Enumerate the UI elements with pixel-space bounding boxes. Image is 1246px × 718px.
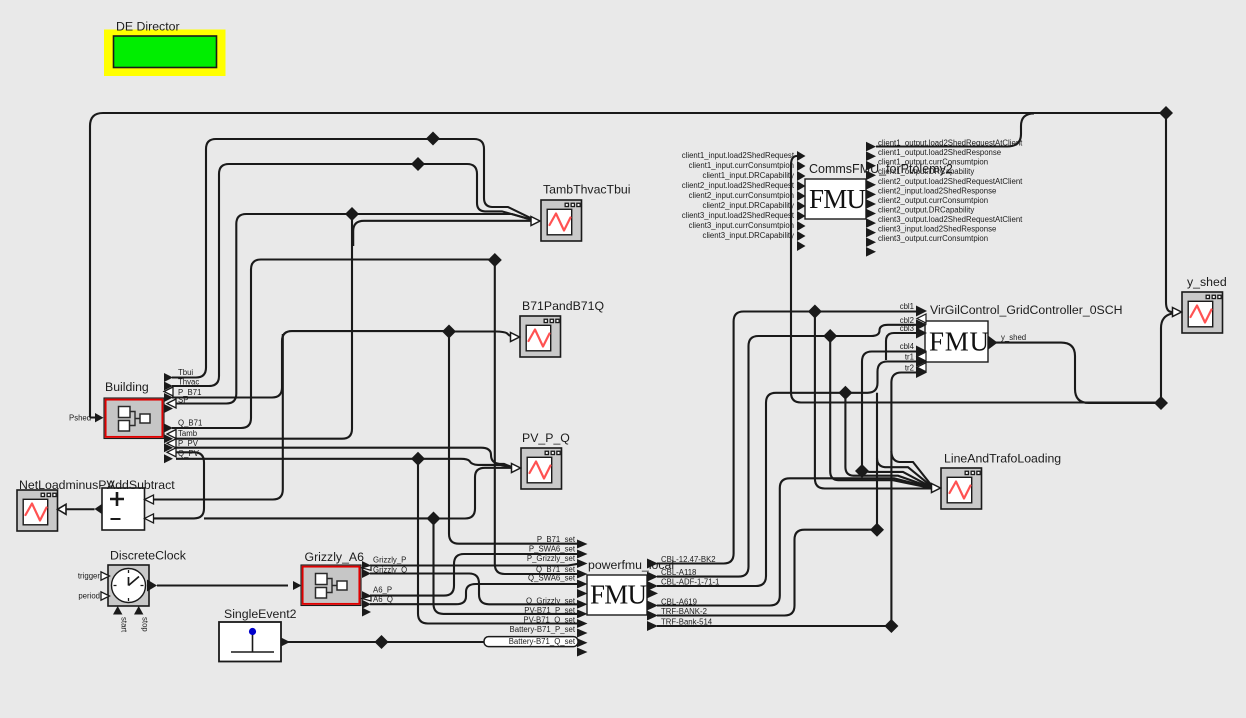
- wire client1_output.load2ShedRequestAtClient riser to top rail: [876, 114, 1034, 147]
- junction cbl2 rail: [823, 329, 837, 343]
- svg-text:PV-B71_Q_set: PV-B71_Q_set: [523, 616, 575, 625]
- svg-text:TRF-BANK-2: TRF-BANK-2: [661, 607, 707, 616]
- wire tr1 rail diamond drop to fan: [845, 393, 933, 488]
- svg-text:client3_output.currConsumtpion: client3_output.currConsumtpion: [878, 234, 988, 243]
- actor DiscreteClock: [78, 549, 187, 633]
- actor Grizzly_A6 (composite): [293, 550, 407, 617]
- wire Q_PV to AddSubtract minus: [154, 452, 204, 518]
- svg-text:P_PV: P_PV: [178, 439, 199, 448]
- svg-text:CBL-A619: CBL-A619: [661, 597, 697, 606]
- junction P_B71 rail: [442, 325, 456, 339]
- svg-text:FMU: FMU: [929, 327, 989, 357]
- wire PV rail drop to powerfmu PV-B71_P_set: [434, 519, 579, 614]
- wire minus rail to diamond 433.5,518.5: [204, 517, 434, 519]
- wire y_shed plotter down to diamond junction: [1161, 314, 1172, 404]
- wire TRF-Bank-514 to diamond then riser to tr2: [657, 373, 917, 627]
- svg-text:client2_input.load2ShedRespons: client2_input.load2ShedResponse: [878, 187, 996, 196]
- actor SingleEvent2: [219, 607, 297, 662]
- svg-text:P_Grizzly_set: P_Grizzly_set: [527, 554, 576, 563]
- ports Building right column: [164, 373, 176, 463]
- svg-text:Thvac: Thvac: [178, 378, 199, 387]
- wire Pshed top loop (Building.Pshed to top rail): [90, 113, 1166, 418]
- svg-text:client3_output.load2ShedReques: client3_output.load2ShedRequestAtClient: [878, 215, 1023, 224]
- wire Q_B71 riser to diamond 494.8,260: [172, 260, 495, 429]
- actor B71PandB71Q (plotter): [511, 299, 605, 357]
- wire tr1 drop tap into LineAndTrafo fan: [877, 458, 933, 488]
- svg-text:client2_output.load2ShedReques: client2_output.load2ShedRequestAtClient: [878, 177, 1023, 186]
- svg-text:Building: Building: [105, 380, 149, 394]
- svg-text:NetLoadminusPV: NetLoadminusPV: [19, 478, 115, 492]
- svg-text:DiscreteClock: DiscreteClock: [110, 549, 187, 563]
- wire Tamb tap into TambThvacTbui: [353, 221, 535, 246]
- junction y_shed rail: [1154, 396, 1168, 410]
- junction Q_PV rail: [411, 452, 425, 466]
- port Building.Pshed: [69, 413, 104, 423]
- wire VirGil y_shed output loop: [995, 343, 1161, 403]
- wire SingleEvent2 to powerfmu Battery-B71_Q_set: [288, 641, 578, 643]
- svg-text:client3_input.load2ShedRespons: client3_input.load2ShedResponse: [878, 225, 996, 234]
- wire AddSubtract out to NetLoadminusPV: [66, 508, 95, 510]
- wire A6_P to powerfmu P_SWA6_set: [370, 554, 578, 596]
- svg-text:A6_P: A6_P: [373, 586, 392, 595]
- svg-text:B71PandB71Q: B71PandB71Q: [522, 299, 604, 313]
- svg-text:client1_output.load2ShedRespon: client1_output.load2ShedResponse: [878, 148, 1001, 157]
- wire CBL-ADF-1-71-1 riser to tr1: [657, 362, 917, 587]
- svg-text:client1_output.load2ShedReques: client1_output.load2ShedRequestAtClient: [878, 139, 1023, 148]
- wire CBL-12.47-BK2 riser to cbl1: [657, 312, 917, 564]
- svg-text:SP: SP: [178, 396, 188, 405]
- actor y_shed (plotter): [1173, 275, 1227, 333]
- wire Tamb branch down from diamond 352,214: [176, 214, 352, 439]
- wire cbl4 drop chain with diamond tap: [862, 352, 917, 472]
- svg-text:Q_B71: Q_B71: [178, 419, 202, 428]
- label pill Battery-B71_Q_set: [484, 637, 578, 647]
- svg-text:client2_output.currConsumtpion: client2_output.currConsumtpion: [878, 196, 988, 205]
- svg-text:Tamb: Tamb: [178, 429, 198, 438]
- junction Tbui rail: [426, 132, 440, 146]
- actor LineAndTrafoLoading (plotter): [932, 452, 1062, 510]
- svg-text:client1_input.load2ShedRequest: client1_input.load2ShedRequest: [682, 151, 795, 160]
- svg-text:Tbui: Tbui: [178, 368, 193, 377]
- svg-text:cbl4: cbl4: [900, 342, 915, 351]
- svg-text:Battery-B71_P_set: Battery-B71_P_set: [510, 625, 576, 634]
- junction rail530: [870, 523, 884, 537]
- port labels powerfmu right: [661, 555, 720, 627]
- svg-text:TambThvacTbui: TambThvacTbui: [543, 183, 630, 197]
- wire DiscreteClock to Grizzly_A6: [157, 584, 288, 586]
- svg-text:Grizzly_A6: Grizzly_A6: [305, 550, 365, 564]
- svg-text:tr1: tr1: [905, 353, 914, 362]
- actor NetLoadminusPV (plotter): [17, 478, 115, 531]
- wire top rail down to y_shed plotter: [1166, 113, 1172, 312]
- svg-text:y_shed: y_shed: [1001, 333, 1026, 342]
- svg-text:tr2: tr2: [905, 364, 914, 373]
- svg-text:Q_Grizzly_set: Q_Grizzly_set: [526, 596, 576, 605]
- junction SP rail: [345, 207, 359, 221]
- svg-text:P_SWA6_set: P_SWA6_set: [529, 545, 576, 554]
- wire tr2 riser tap into LineAndTrafo fan: [891, 451, 933, 487]
- junction cbl4 fan: [855, 464, 869, 478]
- svg-text:client1_input.currConsumtpion: client1_input.currConsumtpion: [689, 161, 794, 170]
- svg-text:client1_input.DRCapability: client1_input.DRCapability: [703, 171, 795, 180]
- junction cbl1 rail: [808, 305, 822, 319]
- svg-text:PV-B71_P_set: PV-B71_P_set: [524, 606, 576, 615]
- wire TRF-BANK-2 riser to y=530 rail: [657, 530, 877, 616]
- junction SingleEvent2 rail: [375, 635, 389, 649]
- svg-text:P_B71_set: P_B71_set: [537, 535, 576, 544]
- ports powerfmu right: [647, 559, 658, 632]
- junction PV rail: [427, 512, 441, 526]
- actor PV_P_Q (plotter): [512, 431, 570, 489]
- port labels CommsFMU right: [878, 139, 1023, 244]
- ports CommsFMU left: [797, 151, 806, 251]
- junction top rail: [1159, 106, 1173, 120]
- svg-text:VirGilControl_GridController_0: VirGilControl_GridController_0SCH: [930, 303, 1123, 317]
- svg-text:cbl1: cbl1: [900, 302, 914, 311]
- wire Q_PV jog into PV_P_Q: [418, 459, 512, 468]
- actor VirGilControl_GridController_0SCH: [925, 303, 1123, 362]
- svg-text:y_shed: y_shed: [1187, 275, 1227, 289]
- svg-text:CBL-A118: CBL-A118: [661, 568, 696, 577]
- port labels CommsFMU left: [682, 151, 795, 240]
- svg-text:DE Director: DE Director: [116, 20, 180, 34]
- svg-text:start: start: [120, 617, 129, 633]
- actor AddSubtract: [95, 478, 176, 530]
- svg-text:client1_output.DRCapability: client1_output.DRCapability: [878, 167, 974, 176]
- svg-text:AddSubtract: AddSubtract: [107, 478, 175, 492]
- wire P_B71 riser to y=331 rail: [172, 331, 449, 397]
- wire CBL-A118 riser to cbl2: [657, 325, 917, 577]
- wire Thvac to TambThvacTbui: [172, 164, 535, 386]
- wire cbl3 stub: [886, 333, 917, 360]
- wire Tbui to TambThvacTbui: [172, 139, 535, 378]
- junction TRF-Bank-514: [884, 619, 898, 633]
- svg-text:client3_input.currConsumtpion: client3_input.currConsumtpion: [689, 221, 794, 230]
- svg-text:A6_Q: A6_Q: [373, 595, 393, 604]
- svg-text:FMU: FMU: [809, 184, 866, 214]
- svg-text:client3_input.DRCapability: client3_input.DRCapability: [703, 231, 795, 240]
- svg-text:client2_input.DRCapability: client2_input.DRCapability: [703, 201, 795, 210]
- wire CBL-A619 riser to LineAndTrafo fan: [657, 478, 933, 605]
- svg-text:Battery-B71_Q_set: Battery-B71_Q_set: [509, 637, 576, 646]
- wire Grizzly_P to powerfmu P_Grizzly_set: [370, 564, 578, 566]
- wire cbl1 rail drop to LineAndTrafo bottom line: [815, 312, 931, 489]
- wire P_B71 branch down to AddSubtract plus: [154, 334, 283, 500]
- svg-text:Q_SWA6_set: Q_SWA6_set: [528, 574, 576, 583]
- wire riser diamond 877,529.7 up to tr1 rail: [876, 393, 878, 530]
- svg-text:LineAndTrafoLoading: LineAndTrafoLoading: [944, 452, 1061, 466]
- svg-text:Q_PV: Q_PV: [178, 449, 200, 458]
- wire P_PV into PV_P_Q: [176, 448, 512, 467]
- svg-text:PV_P_Q: PV_P_Q: [522, 431, 570, 445]
- junction Q_B71 rail: [488, 253, 502, 267]
- actor powerfmu_local: [587, 558, 674, 615]
- svg-text:client3_input.load2ShedRequest: client3_input.load2ShedRequest: [682, 211, 795, 220]
- wire Grizzly_Q to powerfmu Q_Grizzly_set: [370, 574, 578, 605]
- svg-text:CBL-ADF-1-71-1: CBL-ADF-1-71-1: [661, 578, 720, 587]
- svg-text:stop: stop: [141, 617, 150, 632]
- wire cbl2 rail tap down to LineAndTrafo fan: [830, 336, 932, 488]
- svg-text:client1_output.currConsumtpion: client1_output.currConsumtpion: [878, 158, 988, 167]
- svg-text:trigger: trigger: [78, 572, 101, 581]
- wire A6_Q to powerfmu Q_SWA6_set: [370, 584, 578, 604]
- port labels powerfmu left: [510, 535, 576, 634]
- actor Building (composite): [104, 380, 164, 439]
- port labels Building: [178, 368, 202, 458]
- actor CommsFMU_forPtolemy2: [805, 162, 953, 219]
- svg-text:FMU: FMU: [590, 580, 647, 610]
- junction tr1 rail: [838, 386, 852, 400]
- svg-text:period: period: [78, 592, 100, 601]
- ports VirGil left: [916, 306, 927, 379]
- svg-text:cbl3: cbl3: [900, 324, 914, 333]
- svg-text:Grizzly_Q: Grizzly_Q: [373, 566, 407, 575]
- ports CommsFMU right: [866, 142, 876, 257]
- wire Q_B71 drop to powerfmu Q_B71_set: [495, 260, 578, 574]
- svg-text:client2_input.currConsumtpion: client2_input.currConsumtpion: [689, 191, 794, 200]
- wire y=402 rail to CommsFMU client1_input: [791, 156, 1161, 403]
- ports powerfmu left: [577, 540, 588, 657]
- wire Q_PV drop to powerfmu PV-B71_Q_set: [418, 459, 578, 624]
- wire PV rail up into PV_P_Q: [434, 468, 512, 519]
- svg-text:SingleEvent2: SingleEvent2: [224, 607, 297, 621]
- svg-text:CBL-12.47-BK2: CBL-12.47-BK2: [661, 555, 716, 564]
- wire y=331 rail into B71PandB71Q: [449, 332, 510, 337]
- wire P_B71 drop to powerfmu P_B71_set: [449, 332, 578, 544]
- actor TambThvacTbui (plotter): [531, 183, 630, 242]
- svg-text:client2_output.DRCapability: client2_output.DRCapability: [878, 206, 974, 215]
- svg-text:TRF-Bank-514: TRF-Bank-514: [661, 618, 713, 627]
- DE Director: [104, 20, 226, 77]
- wire SP riser to y=214 rail into TambThvacTbui: [176, 214, 535, 404]
- svg-text:Grizzly_P: Grizzly_P: [373, 556, 406, 565]
- wire Q_PV out to diamond 418,458: [176, 458, 418, 460]
- wire cbl4 diamond taps to fan: [862, 471, 933, 488]
- svg-text:client2_input.load2ShedRequest: client2_input.load2ShedRequest: [682, 181, 795, 190]
- junction Thvac rail: [411, 157, 425, 171]
- svg-text:Pshed: Pshed: [69, 414, 91, 423]
